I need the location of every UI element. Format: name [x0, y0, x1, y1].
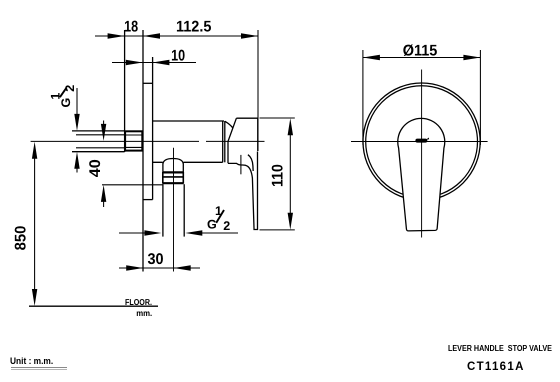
- dim dia115 line: [363, 57, 481, 59]
- wire dim line 18 and 112.5: [95, 35, 258, 37]
- lever inner arc: [248, 155, 253, 171]
- escutcheon side slant and left edge: [228, 118, 236, 163]
- dim 30 line: [119, 267, 200, 269]
- dim dia115 extension lines: [362, 50, 364, 145]
- fillet arc barrel to escutcheon: [225, 121, 233, 128]
- dim 10 arrowheads: [126, 60, 170, 65]
- slash of G1/2 left: [60, 88, 67, 98]
- valve barrel right end double line: [222, 121, 224, 162]
- dim G1/2 mid tails: [119, 232, 145, 234]
- outlet dome cap: [163, 159, 183, 164]
- separator double line: [11, 367, 67, 368]
- front centerline vertical: [421, 70, 423, 238]
- wall plate top tick: [143, 82, 153, 84]
- dim 850 arrowheads: [32, 142, 37, 306]
- dim 850 line: [34, 156, 36, 291]
- svg-text:10: 10: [171, 47, 185, 64]
- svg-text:FLOOR.: FLOOR.: [125, 297, 152, 307]
- centerline horizontal main: [31, 140, 265, 142]
- slash of G1/2 mid: [216, 210, 224, 223]
- label Unit : m.m.: [10, 356, 53, 367]
- svg-text:Ø115: Ø115: [403, 43, 438, 60]
- floor line: [29, 305, 158, 307]
- wall plate right edge x152.6: [152, 57, 154, 200]
- lever center dash: [415, 139, 427, 143]
- dim 18 arrowheads: [108, 33, 258, 38]
- svg-text:mm.: mm.: [136, 308, 152, 318]
- escutcheon side right edge: [257, 118, 259, 151]
- inlet pipe bore lines: [76, 134, 125, 136]
- label CT1161A: [467, 361, 525, 373]
- wire extension line x143: [142, 30, 144, 272]
- valve barrel top: [153, 120, 224, 122]
- dim 30 arrowheads: [126, 265, 191, 270]
- wire dim line 10: [112, 62, 196, 64]
- svg-text:112.5: 112.5: [176, 19, 212, 36]
- escutcheon side top: [236, 117, 257, 119]
- svg-text:40: 40: [87, 159, 104, 177]
- label G1/2 left rotated: [49, 85, 78, 108]
- wall plate bottom tick: [143, 199, 153, 201]
- dim G1/2 left arrowheads: [74, 114, 79, 169]
- outlet pipe below nut: [162, 184, 164, 236]
- valve barrel bottom: [153, 161, 223, 163]
- dim 40 arrowheads: [101, 124, 106, 202]
- escutcheon outer circle: [363, 83, 480, 200]
- dim 110 extension lines: [260, 117, 295, 119]
- inlet pipe outer walls: [72, 130, 125, 132]
- svg-text:850: 850: [12, 226, 29, 251]
- lever front view: [398, 118, 445, 231]
- svg-text:18: 18: [124, 19, 138, 36]
- wire extension line y184.8: [102, 184, 163, 186]
- outlet centerline vertical: [173, 148, 175, 272]
- label LEVER HANDLE STOP VALVE: [448, 343, 552, 353]
- dim G1/2 mid arrowheads: [144, 230, 202, 235]
- dim G1/2 left arrow shafts: [76, 88, 78, 117]
- dim dia115 arrowheads: [363, 55, 481, 60]
- wire extension line x258: [257, 30, 259, 151]
- outlet nut: [163, 171, 184, 173]
- svg-text:2: 2: [223, 219, 230, 233]
- cross mark lever pivot: [240, 155, 242, 174]
- label G1/2 mid: [207, 204, 230, 233]
- dim 40 arrow shafts: [103, 121, 105, 127]
- dim 110 line: [289, 133, 291, 215]
- escutcheon inner circle: [366, 86, 478, 198]
- dim 110 arrowheads: [288, 118, 293, 230]
- lever side profile: [228, 152, 258, 230]
- svg-text:30: 30: [147, 251, 163, 268]
- outlet dome sides: [163, 164, 183, 173]
- svg-text:110: 110: [269, 164, 286, 187]
- svg-text:G: G: [207, 218, 217, 232]
- socket box in flange: [125, 131, 142, 150]
- front centerline horizontal: [351, 141, 488, 143]
- wire extension line flange left x124.6: [124, 30, 126, 152]
